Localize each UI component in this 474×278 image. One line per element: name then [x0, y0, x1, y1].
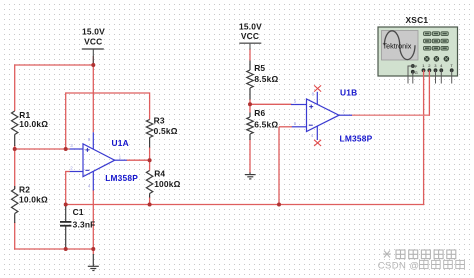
wire node B to R6 [249, 104, 251, 112]
junction feedback on bus [277, 203, 281, 207]
wire inverting input U1A [66, 171, 70, 173]
resistor R1 10.0kΩ [12, 110, 49, 146]
wire R1 to R2 [14, 145, 16, 189]
wire left rail to R1 [14, 64, 16, 111]
svg-text:U1A: U1A [112, 138, 129, 148]
wire R5 to node B [249, 99, 251, 104]
svg-text:15.0V: 15.0V [239, 21, 262, 31]
wire output node to R4 [149, 160, 151, 170]
svg-text:R3: R3 [154, 116, 165, 126]
resistor R3 0.5kΩ [146, 116, 177, 148]
op-amp U1A [70, 132, 138, 190]
wire R6 to ground [249, 140, 251, 174]
scope terminal G [411, 70, 414, 73]
wire U1B output riser to scope pin 2 [428, 70, 430, 116]
unconnected pin X marker bottom [314, 140, 321, 146]
ground (below C1 node) [88, 254, 99, 271]
svg-text:VCC: VCC [241, 31, 259, 41]
power VCC V1 15.0V [82, 27, 105, 64]
wire VCC node to left rail [15, 64, 94, 66]
wire node A vertical [65, 92, 67, 149]
svg-text:XSC1: XSC1 [406, 15, 429, 25]
svg-text:R5: R5 [254, 63, 265, 73]
resistor R2 10.0kΩ [12, 185, 48, 224]
junction C1 bottom [64, 247, 68, 251]
junction node A on input wire [64, 147, 68, 151]
svg-text:R6: R6 [254, 108, 265, 118]
svg-text:8.5kΩ: 8.5kΩ [254, 74, 278, 84]
wire R3 top lead [149, 92, 151, 119]
wire R4 bottom to bus [149, 197, 151, 205]
wire bottom run [14, 248, 93, 250]
svg-text:100kΩ: 100kΩ [154, 179, 180, 189]
svg-text:C1: C1 [73, 207, 84, 217]
svg-text:G: G [415, 70, 418, 75]
oscilloscope XSC1 [378, 15, 458, 84]
wire VCC V2 stem to R5 [249, 49, 251, 61]
resistor R4 100kΩ [146, 169, 180, 198]
svg-text:LM358P: LM358P [105, 173, 138, 183]
wire inverting drop [65, 171, 67, 205]
wire VCC V1 stem to U1A pin8 [92, 56, 94, 132]
unconnected pin X marker top [314, 85, 321, 91]
wire bus riser to scope pin 1 [423, 70, 425, 205]
svg-text:15.0V: 15.0V [82, 27, 105, 37]
wire noninverting input U1A [15, 148, 70, 150]
wire U1B inverting input [279, 126, 292, 128]
resistor R6 6.5kΩ [247, 108, 279, 140]
svg-text:U1B: U1B [340, 88, 357, 98]
svg-text:Tektronix: Tektronix [383, 42, 412, 51]
op-amp U1B [291, 85, 373, 146]
power VCC V2 15.0V [239, 21, 262, 49]
scope terminal P [411, 64, 414, 67]
wire U1B feedback drop [278, 127, 280, 205]
junction node B R5 R6 [248, 102, 252, 106]
junction U1A output node [148, 158, 152, 162]
svg-text:LM358P: LM358P [340, 134, 373, 144]
junction VCC node [91, 63, 95, 67]
wire R3 bottom to output node [149, 147, 151, 160]
wire node A to R3 [66, 92, 150, 94]
svg-text:0.5kΩ: 0.5kΩ [154, 126, 178, 136]
svg-text:CSDN @: CSDN @ [378, 260, 420, 271]
junction ground node [91, 247, 95, 251]
svg-text:R2: R2 [19, 185, 30, 195]
wire R2 to bottom [14, 222, 16, 250]
svg-text:P: P [415, 64, 418, 69]
wire feedback bus [66, 204, 424, 206]
wire ground lead [92, 249, 94, 255]
wire U1A output [127, 159, 150, 161]
svg-text:3.3nF: 3.3nF [73, 219, 96, 229]
junction noninverting node left [13, 147, 17, 151]
svg-text:VCC: VCC [84, 37, 102, 47]
watermark [383, 250, 456, 259]
svg-text:10.0kΩ: 10.0kΩ [19, 195, 48, 205]
junction bus left end [64, 203, 68, 207]
resistor R5 8.5kΩ [247, 61, 279, 100]
junction R4 on bus [148, 203, 152, 207]
svg-text:6.5kΩ: 6.5kΩ [254, 119, 278, 129]
svg-text:10.0kΩ: 10.0kΩ [19, 119, 48, 129]
wire node B to U1B noninverting input [250, 103, 292, 105]
svg-text:R4: R4 [154, 169, 165, 179]
ground (below R6) [245, 173, 256, 179]
wire U1B output run [352, 114, 430, 116]
capacitor C1 3.3nF [60, 205, 95, 250]
wire U1A pin4 drop [92, 190, 94, 249]
